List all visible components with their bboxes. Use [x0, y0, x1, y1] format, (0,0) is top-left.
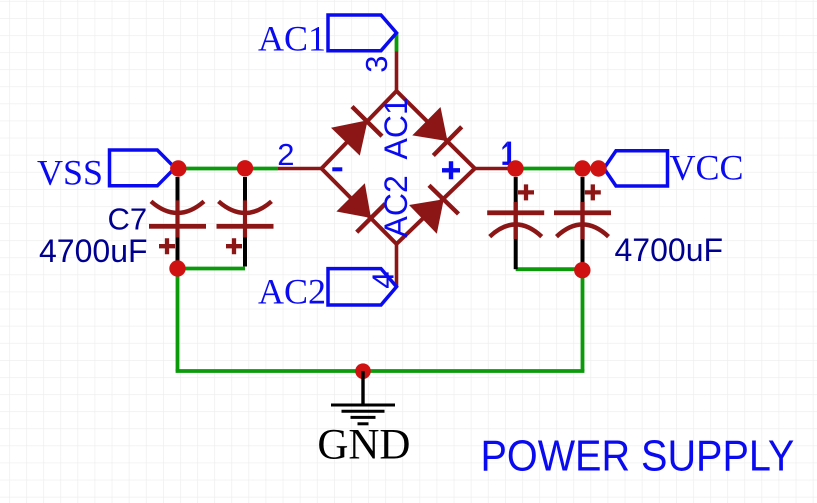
- wire top AC1 port to bridge pin (green): [395, 33, 399, 52]
- junction dot right outer cap top: [574, 160, 590, 176]
- diode bottom-left (anode left vertex, cathode bottom): [336, 183, 385, 232]
- wire right down to ground rail (green): [581, 270, 585, 371]
- svg-text:AC1: AC1: [258, 19, 326, 59]
- designator C7: [108, 202, 148, 237]
- wire ground rail (green): [176, 369, 585, 373]
- junction dot ground rail: [355, 363, 371, 379]
- bridge pin name minus: [332, 167, 342, 171]
- junction dot right inner cap top: [507, 160, 523, 176]
- bridge pin number 2: [277, 137, 294, 172]
- svg-text:4700uF: 4700uF: [615, 232, 724, 268]
- junction dot VCC port tip: [590, 160, 606, 176]
- wire VSS to bridge (green): [175, 167, 278, 171]
- port VCC: [604, 151, 668, 186]
- bridge pin 1 lead (right): [475, 167, 509, 171]
- capacitor left inner (x=245): [217, 177, 274, 267]
- bridge pin number 1: [502, 142, 512, 165]
- port AC2: [328, 269, 397, 305]
- svg-text:C7: C7: [108, 202, 148, 237]
- port VSS label: [37, 153, 103, 193]
- wire left down to ground rail (green): [176, 269, 180, 372]
- svg-text:AC2: AC2: [378, 175, 414, 237]
- svg-text:AC1: AC1: [378, 97, 414, 159]
- bridge pin 4 lead (bottom): [395, 244, 399, 287]
- ground net label GND: [317, 422, 410, 469]
- junction dot left inner cap top: [237, 160, 253, 176]
- svg-text:POWER SUPPLY: POWER SUPPLY: [481, 431, 795, 480]
- junction dot VSS: [170, 160, 186, 176]
- capacitor C7 (left outer, x=177.5): [149, 177, 206, 269]
- wire right caps bottom link (green): [516, 267, 583, 271]
- value 4700uF (left): [39, 233, 148, 269]
- diode bottom-right (anode bottom vertex, cathode right): [409, 185, 459, 234]
- port VSS: [110, 150, 176, 186]
- value 4700uF (right): [615, 232, 724, 268]
- wire left caps bottom link (green): [178, 267, 246, 271]
- bridge pin 2 lead (left): [278, 167, 322, 171]
- title POWER SUPPLY: [481, 431, 795, 480]
- svg-text:AC2: AC2: [258, 272, 326, 312]
- diode top-right (anode top vertex, cathode right): [412, 107, 461, 156]
- diode top-left (anode left vertex, cathode top): [331, 107, 382, 156]
- capacitor right inner (x=515.7): [487, 177, 544, 269]
- bridge pin 3 lead (top): [395, 52, 399, 92]
- svg-text:4700uF: 4700uF: [39, 233, 148, 269]
- svg-text:3: 3: [359, 56, 394, 73]
- junction dot left caps bottom: [169, 260, 185, 276]
- bridge pin number 4 (rotated): [366, 272, 401, 289]
- bridge pin name AC1 (rotated): [378, 97, 414, 159]
- wire bridge to VCC (green): [516, 167, 605, 171]
- ground symbol GND: [331, 371, 395, 424]
- svg-text:GND: GND: [317, 422, 410, 469]
- port AC1 label: [258, 19, 326, 59]
- svg-text:VCC: VCC: [670, 148, 744, 188]
- svg-text:2: 2: [277, 137, 294, 172]
- port VCC label: [670, 148, 744, 188]
- junction dot right caps bottom: [574, 262, 590, 278]
- bridge pin name AC2 (rotated): [378, 175, 414, 237]
- port AC2 label: [258, 272, 326, 312]
- svg-text:VSS: VSS: [37, 153, 103, 193]
- port AC1: [328, 15, 397, 51]
- capacitor right outer (x=582.5): [554, 177, 611, 269]
- bridge rectifier D1 outline (diamond): [322, 91, 475, 244]
- bridge pin number 3 (rotated): [359, 56, 394, 73]
- bridge pin name plus: [442, 161, 460, 179]
